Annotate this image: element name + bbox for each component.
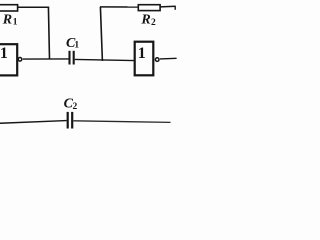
wire from R2 to right edge <box>160 5 176 8</box>
svg-text:1: 1 <box>13 17 18 27</box>
wire stub down at right edge <box>174 6 176 10</box>
svg-text:1: 1 <box>0 45 8 62</box>
svg-text:R: R <box>140 12 150 27</box>
wire from U1 output bubble to capacitor C1 <box>23 58 69 60</box>
label C2 <box>64 97 78 112</box>
label R2 <box>140 12 156 28</box>
op-amp U1 inverter gate box <box>0 44 17 75</box>
svg-text:R: R <box>2 13 12 28</box>
label R1 <box>2 13 18 28</box>
resistor R2 <box>138 5 160 11</box>
wire vertical from R2 top-left corner down to U2 input node <box>100 7 102 61</box>
inverter bubble of U2 <box>155 58 159 62</box>
wire from C2 to bottom-right <box>73 121 170 123</box>
wire bottom-left to capacitor C2 <box>0 121 67 124</box>
capacitor C1 <box>70 51 74 65</box>
inverter bubble of U1 <box>18 58 22 62</box>
wire vertical from top-left corner down to gate U1 output <box>48 7 49 60</box>
resistor R1 <box>0 5 18 11</box>
wire from corner node to resistor R2 <box>100 6 138 8</box>
wire from C1 to gate U2 input <box>75 59 135 60</box>
capacitor C2 <box>68 112 73 129</box>
svg-text:2: 2 <box>151 18 156 28</box>
svg-text:1: 1 <box>138 45 146 62</box>
op-amp U2 inverter gate box <box>135 42 154 76</box>
svg-text:2: 2 <box>73 102 78 112</box>
label C1 <box>66 36 79 51</box>
wire from R1 to top-left corner node <box>18 6 49 8</box>
svg-text:1: 1 <box>74 41 79 51</box>
wire from U2 output bubble to right edge <box>160 57 177 60</box>
